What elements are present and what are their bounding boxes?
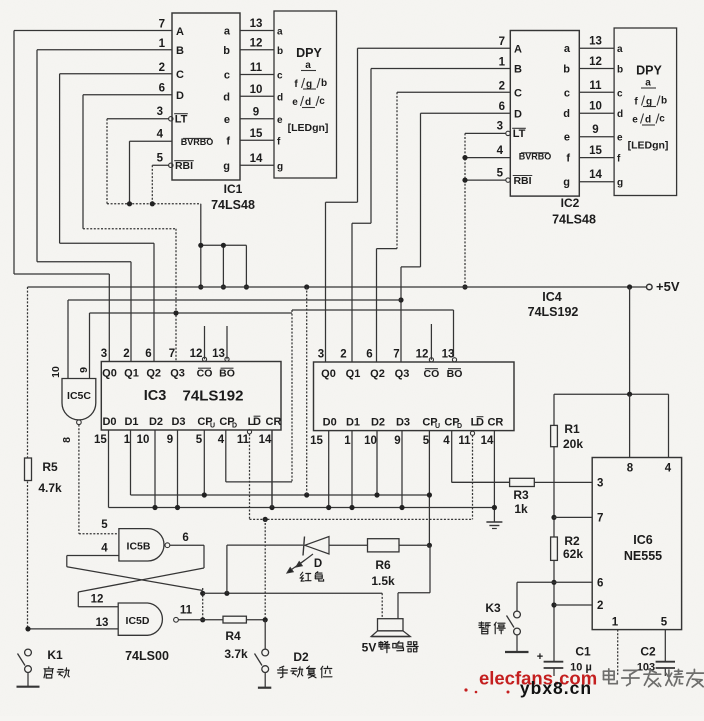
svg-text:b: b bbox=[277, 46, 283, 57]
svg-text:e: e bbox=[617, 133, 623, 144]
svg-text:11: 11 bbox=[237, 434, 250, 446]
svg-text:a: a bbox=[305, 60, 311, 71]
svg-text:f: f bbox=[566, 153, 570, 165]
svg-text:+5V: +5V bbox=[656, 279, 680, 294]
svg-text:9: 9 bbox=[592, 124, 598, 136]
svg-text:Q1: Q1 bbox=[346, 368, 361, 380]
svg-text:D1: D1 bbox=[124, 416, 138, 428]
svg-text:4: 4 bbox=[497, 145, 504, 157]
svg-text:D3: D3 bbox=[396, 417, 410, 429]
svg-text:14: 14 bbox=[259, 434, 272, 446]
svg-text:12: 12 bbox=[416, 349, 429, 361]
svg-text:6: 6 bbox=[182, 532, 188, 544]
svg-text:7: 7 bbox=[499, 36, 505, 48]
svg-text:9: 9 bbox=[394, 435, 400, 447]
svg-text:a: a bbox=[645, 78, 651, 89]
svg-text:6: 6 bbox=[366, 349, 372, 361]
svg-text:1: 1 bbox=[612, 617, 619, 629]
svg-text:Q0: Q0 bbox=[321, 368, 336, 380]
svg-text:a: a bbox=[224, 26, 231, 38]
svg-text:1k: 1k bbox=[514, 502, 528, 516]
svg-text:7: 7 bbox=[393, 349, 399, 361]
svg-text:C: C bbox=[514, 88, 522, 100]
svg-text:5: 5 bbox=[101, 519, 108, 531]
svg-text:D: D bbox=[253, 416, 261, 428]
svg-text:D: D bbox=[476, 417, 484, 429]
svg-text:[LEDgn]: [LEDgn] bbox=[628, 140, 669, 152]
svg-text:9: 9 bbox=[167, 434, 173, 446]
svg-text:Q1: Q1 bbox=[124, 368, 139, 380]
svg-text:74LS192: 74LS192 bbox=[183, 388, 244, 405]
svg-text:D: D bbox=[457, 423, 462, 430]
svg-text:6: 6 bbox=[499, 101, 505, 113]
svg-text:5: 5 bbox=[196, 434, 203, 446]
svg-text:c: c bbox=[564, 87, 570, 99]
svg-text:62k: 62k bbox=[563, 547, 583, 561]
svg-text:IC3: IC3 bbox=[144, 388, 167, 404]
svg-text:14: 14 bbox=[250, 153, 263, 165]
svg-text:9: 9 bbox=[253, 106, 259, 118]
svg-text:13: 13 bbox=[442, 349, 455, 361]
svg-text:5: 5 bbox=[661, 617, 668, 629]
svg-text:5V: 5V bbox=[362, 641, 377, 655]
svg-text:15: 15 bbox=[250, 128, 263, 140]
svg-text:3.7k: 3.7k bbox=[224, 647, 248, 661]
svg-text:4.7k: 4.7k bbox=[38, 481, 62, 495]
svg-text:D1: D1 bbox=[346, 417, 360, 429]
svg-text:15: 15 bbox=[310, 435, 323, 447]
svg-text:g: g bbox=[563, 177, 570, 189]
svg-text:IC4: IC4 bbox=[542, 290, 562, 304]
svg-text:CR: CR bbox=[266, 416, 282, 428]
svg-text:Q2: Q2 bbox=[370, 368, 385, 380]
svg-text:B: B bbox=[514, 64, 522, 76]
svg-text:5: 5 bbox=[157, 153, 164, 165]
svg-text:d: d bbox=[277, 92, 283, 103]
svg-text:c: c bbox=[319, 96, 325, 107]
svg-text:f: f bbox=[226, 135, 230, 147]
svg-text:10: 10 bbox=[250, 84, 263, 96]
svg-text:5: 5 bbox=[497, 167, 504, 179]
svg-text:3: 3 bbox=[497, 121, 503, 133]
svg-text:R1: R1 bbox=[564, 422, 580, 436]
svg-text:IC5C: IC5C bbox=[67, 390, 91, 402]
svg-text:g: g bbox=[617, 178, 623, 189]
svg-text:NE555: NE555 bbox=[624, 549, 662, 563]
svg-text:4: 4 bbox=[157, 129, 164, 141]
svg-text:4: 4 bbox=[101, 543, 108, 555]
svg-text:d: d bbox=[305, 97, 311, 108]
svg-text:D: D bbox=[314, 558, 322, 570]
svg-text:D: D bbox=[176, 90, 184, 102]
svg-text:20k: 20k bbox=[563, 437, 583, 451]
svg-text:3: 3 bbox=[101, 348, 107, 360]
svg-text:6: 6 bbox=[597, 578, 603, 590]
svg-text:3: 3 bbox=[318, 349, 324, 361]
svg-text:7: 7 bbox=[159, 19, 165, 31]
svg-text:15: 15 bbox=[94, 434, 107, 446]
svg-text:Q0: Q0 bbox=[102, 368, 117, 380]
svg-text:9: 9 bbox=[78, 367, 90, 373]
svg-text:CO: CO bbox=[424, 368, 440, 380]
svg-text:1: 1 bbox=[124, 434, 131, 446]
svg-text:e: e bbox=[632, 115, 638, 126]
svg-text:1.5k: 1.5k bbox=[371, 574, 395, 588]
svg-text:7: 7 bbox=[169, 348, 175, 360]
svg-text:g: g bbox=[223, 160, 230, 172]
svg-text:DPY: DPY bbox=[636, 64, 662, 78]
svg-text:11: 11 bbox=[250, 62, 263, 74]
svg-text:12: 12 bbox=[91, 594, 104, 606]
svg-text:1: 1 bbox=[499, 57, 506, 69]
svg-text:6: 6 bbox=[159, 83, 165, 95]
svg-text:8: 8 bbox=[61, 437, 73, 443]
svg-text:g: g bbox=[277, 161, 283, 172]
svg-text:10: 10 bbox=[50, 366, 62, 378]
svg-text:c: c bbox=[277, 71, 283, 82]
svg-text:a: a bbox=[277, 27, 283, 38]
svg-text:b: b bbox=[617, 65, 623, 76]
svg-text:IC1: IC1 bbox=[224, 182, 243, 196]
svg-text:A: A bbox=[176, 26, 184, 38]
svg-text:14: 14 bbox=[589, 169, 602, 181]
svg-text:R6: R6 bbox=[375, 558, 391, 572]
svg-text:C: C bbox=[176, 69, 184, 81]
svg-text:13: 13 bbox=[589, 36, 602, 48]
svg-text:3: 3 bbox=[157, 106, 163, 118]
svg-text:10: 10 bbox=[137, 434, 150, 446]
svg-text:4: 4 bbox=[443, 435, 450, 447]
svg-text:12: 12 bbox=[250, 37, 263, 49]
svg-text:2: 2 bbox=[499, 80, 505, 92]
svg-text:D: D bbox=[514, 108, 522, 120]
svg-text:ybx8.cn: ybx8.cn bbox=[520, 678, 592, 698]
svg-text:2: 2 bbox=[340, 349, 346, 361]
svg-text:2: 2 bbox=[597, 600, 603, 612]
svg-text:[LEDgn]: [LEDgn] bbox=[288, 122, 329, 134]
svg-text:d: d bbox=[563, 108, 570, 120]
svg-text:a: a bbox=[564, 43, 571, 55]
svg-text:c: c bbox=[224, 70, 230, 82]
svg-text:Q3: Q3 bbox=[170, 368, 185, 380]
svg-text:3: 3 bbox=[597, 478, 603, 490]
svg-text:D2: D2 bbox=[371, 417, 385, 429]
svg-text:15: 15 bbox=[589, 145, 602, 157]
svg-text:c: c bbox=[617, 88, 623, 99]
svg-text:CR: CR bbox=[487, 417, 503, 429]
svg-text:10: 10 bbox=[364, 435, 377, 447]
svg-text:b: b bbox=[223, 45, 230, 57]
svg-text:13: 13 bbox=[212, 348, 225, 360]
svg-text:+: + bbox=[537, 651, 543, 663]
svg-text:e: e bbox=[277, 115, 283, 126]
svg-text:d: d bbox=[645, 115, 651, 126]
svg-text:D0: D0 bbox=[102, 416, 116, 428]
svg-text:12: 12 bbox=[190, 348, 203, 360]
svg-text:C1: C1 bbox=[575, 645, 591, 659]
svg-text:Q3: Q3 bbox=[395, 368, 410, 380]
svg-text:U: U bbox=[210, 423, 215, 430]
svg-text:D2: D2 bbox=[293, 650, 309, 664]
svg-text:IC2: IC2 bbox=[561, 196, 580, 210]
svg-text:1: 1 bbox=[159, 38, 166, 50]
svg-text:D2: D2 bbox=[149, 416, 163, 428]
svg-text:Q2: Q2 bbox=[146, 368, 161, 380]
svg-text:7: 7 bbox=[597, 513, 603, 525]
svg-text:11: 11 bbox=[180, 605, 193, 617]
svg-text:11: 11 bbox=[589, 80, 602, 92]
svg-text:5: 5 bbox=[423, 435, 430, 447]
svg-text:K3: K3 bbox=[485, 601, 501, 615]
svg-text:74LS192: 74LS192 bbox=[528, 305, 579, 319]
svg-text:CO: CO bbox=[197, 368, 213, 380]
svg-text:D0: D0 bbox=[323, 417, 337, 429]
svg-text:R5: R5 bbox=[42, 460, 58, 474]
svg-text:BO: BO bbox=[447, 368, 463, 380]
svg-text:13: 13 bbox=[250, 18, 263, 30]
svg-text:LT: LT bbox=[513, 128, 526, 140]
svg-text:e: e bbox=[224, 114, 230, 126]
svg-text:g: g bbox=[306, 79, 312, 90]
svg-text:B: B bbox=[176, 45, 184, 57]
svg-text:6: 6 bbox=[145, 348, 151, 360]
svg-text:8: 8 bbox=[627, 463, 634, 475]
svg-text:74LS00: 74LS00 bbox=[125, 649, 169, 663]
svg-text:e: e bbox=[292, 97, 298, 108]
svg-text:4: 4 bbox=[665, 463, 672, 475]
svg-text:A: A bbox=[514, 44, 522, 56]
svg-text:11: 11 bbox=[458, 435, 471, 447]
svg-text:13: 13 bbox=[96, 617, 109, 629]
svg-text:BO: BO bbox=[219, 368, 235, 380]
svg-text:2: 2 bbox=[159, 62, 165, 74]
svg-text:DPY: DPY bbox=[296, 46, 322, 60]
svg-text:b: b bbox=[563, 64, 570, 76]
svg-text:C2: C2 bbox=[640, 645, 656, 659]
svg-text:R3: R3 bbox=[513, 488, 529, 502]
svg-text:d: d bbox=[617, 109, 623, 120]
svg-text:LT: LT bbox=[175, 114, 188, 126]
svg-text:IC5D: IC5D bbox=[126, 615, 150, 627]
svg-text:D3: D3 bbox=[171, 416, 185, 428]
svg-text:RBI: RBI bbox=[513, 175, 531, 187]
svg-text:2: 2 bbox=[123, 348, 129, 360]
svg-text:K1: K1 bbox=[47, 648, 63, 662]
svg-text:74LS48: 74LS48 bbox=[552, 213, 596, 227]
svg-text:4: 4 bbox=[218, 434, 225, 446]
svg-text:U: U bbox=[435, 423, 440, 430]
svg-text:g: g bbox=[646, 97, 652, 108]
svg-text:D: D bbox=[232, 423, 237, 430]
svg-text:1: 1 bbox=[344, 435, 351, 447]
svg-text:74LS48: 74LS48 bbox=[211, 198, 255, 212]
svg-text:b: b bbox=[661, 96, 667, 107]
svg-text:c: c bbox=[659, 114, 665, 125]
svg-text:14: 14 bbox=[481, 435, 494, 447]
svg-text:IC6: IC6 bbox=[633, 533, 653, 547]
svg-text:R4: R4 bbox=[225, 629, 241, 643]
svg-text:b: b bbox=[321, 78, 327, 89]
svg-text:RBI: RBI bbox=[175, 160, 193, 172]
svg-text:a: a bbox=[617, 44, 623, 55]
svg-text:10: 10 bbox=[589, 101, 602, 113]
svg-text:IC5B: IC5B bbox=[127, 541, 151, 553]
svg-text:12: 12 bbox=[589, 56, 602, 68]
svg-text:R2: R2 bbox=[564, 534, 580, 548]
svg-text:e: e bbox=[564, 132, 570, 144]
svg-text:d: d bbox=[223, 91, 230, 103]
